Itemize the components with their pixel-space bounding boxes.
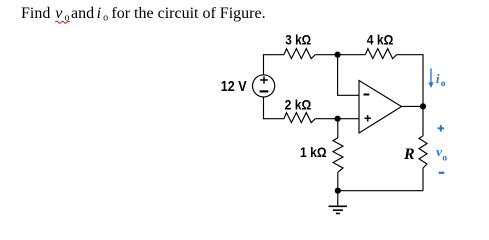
wire top from source to 3k xyxy=(264,55,285,75)
wire 4k to right top corner and down xyxy=(397,55,423,107)
io current arrow xyxy=(428,68,433,88)
resistor R1 3k zigzag xyxy=(284,49,315,59)
op-amp U1 triangle xyxy=(359,81,402,134)
minus sign of source xyxy=(260,90,269,92)
red squiggle under vo xyxy=(55,21,70,23)
node A junction dot xyxy=(335,52,341,58)
title text xyxy=(21,5,266,24)
svg-text:2 kΩ: 2 kΩ xyxy=(285,97,312,112)
op-amp plus symbol xyxy=(365,115,371,121)
wire node A to 4k xyxy=(338,54,366,56)
wire output node down to R xyxy=(422,106,424,136)
resistor R vertical zigzag xyxy=(419,136,427,168)
wire R to bottom rail xyxy=(422,168,424,191)
svg-text:o: o xyxy=(442,153,447,163)
wire source bottom to 2k xyxy=(264,97,285,119)
resistor R4 1k vertical zigzag xyxy=(333,138,343,172)
bottom junction dot xyxy=(335,188,341,194)
svg-text:Find: Find xyxy=(21,5,50,22)
svg-text:R: R xyxy=(403,146,415,163)
svg-text:o: o xyxy=(103,12,108,23)
svg-text:for the circuit of Figure.: for the circuit of Figure. xyxy=(111,5,265,22)
svg-text:1 kΩ: 1 kΩ xyxy=(300,145,327,160)
resistor R2 4k zigzag xyxy=(365,49,396,59)
svg-text:4 kΩ: 4 kΩ xyxy=(367,32,394,47)
svg-text:v: v xyxy=(55,5,63,22)
svg-text:i: i xyxy=(436,72,440,86)
wire op-amp output to output node xyxy=(402,105,424,107)
wire node A down to op-amp minus input xyxy=(338,55,359,96)
svg-text:i: i xyxy=(97,5,101,22)
wire 2k to node B xyxy=(315,118,337,120)
label minus of vo xyxy=(439,172,445,174)
output node junction dot xyxy=(420,103,426,109)
resistor R3 2k zigzag xyxy=(284,113,315,123)
ground stub wire xyxy=(337,191,339,207)
ground symbol xyxy=(329,206,347,213)
svg-text:and: and xyxy=(71,5,94,22)
op-amp minus symbol xyxy=(364,94,370,96)
plus sign of source xyxy=(260,76,268,83)
bottom rail wire xyxy=(338,190,423,192)
label plus of vo xyxy=(438,125,444,131)
node B junction dot xyxy=(335,116,341,122)
wire 3k to node A xyxy=(315,54,337,56)
svg-text:v: v xyxy=(436,144,442,159)
voltage source V1 circle xyxy=(253,75,275,97)
svg-text:o: o xyxy=(441,79,446,89)
svg-text:12 V: 12 V xyxy=(221,78,248,95)
svg-text:3 kΩ: 3 kΩ xyxy=(285,32,311,47)
wire node B down to 1k xyxy=(337,119,339,138)
wire node B to op-amp plus input xyxy=(338,118,359,120)
wire 1k to bottom junction xyxy=(337,172,339,190)
